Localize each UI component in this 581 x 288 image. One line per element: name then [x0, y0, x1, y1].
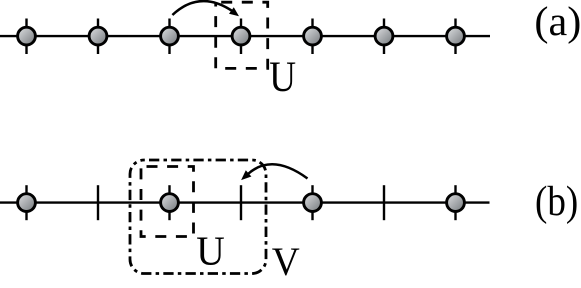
tick 1 row (b) — [97, 185, 99, 220]
svg-text:(b): (b) — [535, 178, 578, 225]
svg-text:U: U — [269, 54, 296, 101]
svg-text:U: U — [196, 229, 225, 274]
site 5 row (a) — [304, 19, 322, 55]
site 4 row (a) — [232, 19, 250, 55]
dashed box U row (b) — [141, 167, 194, 237]
site 6 row (a) — [375, 19, 393, 55]
site 1 row (a) — [18, 19, 36, 55]
dashed box U row (a) — [216, 2, 268, 68]
site circle 4 row (b) — [447, 185, 465, 220]
hop arrow row (a) — [172, 1, 239, 16]
wire chain (a) — [0, 35, 490, 37]
wire chain (b) — [0, 201, 490, 203]
tick 3 row (b) — [383, 185, 385, 220]
hop arrow row (b) — [241, 164, 307, 180]
site 3 row (a) — [161, 19, 179, 55]
tick 2 row (b) — [240, 185, 242, 220]
site 2 row (a) — [89, 19, 107, 55]
site circle 1 row (b) — [18, 185, 36, 220]
site circle 3 row (b) — [304, 185, 322, 220]
site 7 row (a) — [447, 19, 465, 55]
svg-text:V: V — [272, 239, 300, 284]
dash-dot box V row (b) — [130, 160, 266, 274]
svg-text:(a): (a) — [534, 0, 581, 44]
site circle 2 row (b) — [161, 185, 179, 220]
